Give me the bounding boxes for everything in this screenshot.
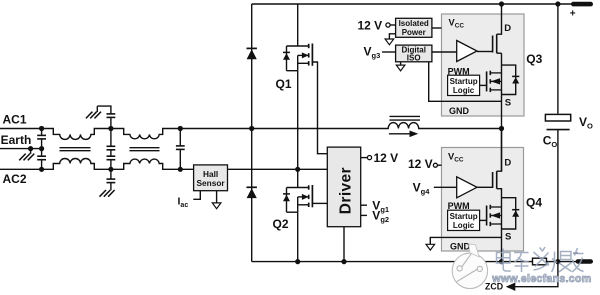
svg-text:Logic: Logic: [453, 221, 475, 230]
node junction dot AC1/input-caps: [39, 126, 44, 131]
Startup Logic box (Q3): [448, 75, 480, 95]
wire driver Vg1 stub: [361, 204, 367, 206]
transistor Q1: [283, 44, 312, 71]
wire Vg4 input to Q4 gate buffer: [434, 186, 457, 188]
wire Q1 source to AC2 node: [297, 71, 299, 170]
wire Q2 drain stub: [297, 169, 299, 187]
diode Q3 body diode: [512, 76, 519, 83]
ground signal gnd at Hall sensor: [212, 203, 221, 209]
capacitor output X-cap: [176, 146, 185, 150]
svg-text:12 V: 12 V: [358, 18, 383, 32]
svg-text:PWM: PWM: [448, 67, 470, 77]
wire Q3 source jog: [497, 52, 502, 54]
svg-text:S: S: [505, 231, 511, 242]
svg-text:D: D: [504, 158, 511, 169]
op-amp U3 power stage panel (Q3 block background): [442, 14, 525, 116]
svg-text:PWM: PWM: [448, 201, 470, 211]
transistor Q4 GaN FET gate and channel bars: [493, 171, 497, 189]
svg-text:Sensor: Sensor: [197, 178, 226, 188]
svg-text:AC2: AC2: [3, 172, 27, 186]
wire Q2 source to bottom rail: [297, 212, 299, 261]
node junction dot Co-ZCD/bottom rail: [555, 259, 560, 264]
svg-text:S: S: [505, 97, 511, 108]
wire driver 12V stub: [361, 157, 368, 159]
wire Digital ISO output to Q3 gate buffer: [432, 51, 457, 53]
node junction dot AC1/output X-cap: [178, 126, 183, 131]
wire boost inductor core bars: [390, 115, 421, 117]
diode D2 (bottom of slow leg): [247, 187, 257, 198]
wire Earth input line: [0, 148, 42, 150]
wire driver bottom pin to bottom rail: [343, 227, 345, 262]
boost inductor current direction arrow: [410, 131, 419, 138]
wire CM choke 1 core: [60, 147, 91, 149]
svg-text:Q1: Q1: [276, 77, 292, 91]
wire output capacitor Co branch: [557, 4, 559, 262]
wire Q4 body diode branch: [502, 198, 516, 229]
capacitor mid filter X-cap lower: [107, 156, 116, 160]
ground signal gnd at Isolated Power: [385, 39, 394, 45]
capacitor Y-cap to earth (top mid filter): [107, 114, 116, 118]
wire Digital ISO ground stub: [400, 62, 402, 65]
wire mid filter X-caps between AC1 and AC2: [110, 129, 112, 170]
node junction dot AC2/Q1-Q2 midpoint: [295, 167, 300, 172]
svg-text:Logic: Logic: [453, 86, 475, 95]
capacitor Y-cap to earth (bottom mid filter): [107, 179, 116, 183]
wire AC1 line with EMI choke sections and boost inductor: [0, 123, 502, 140]
ground earth symbol at Earth input: [30, 149, 32, 154]
svg-text:Q2: Q2: [273, 217, 289, 231]
wire Q4 GND pin to ground: [430, 237, 501, 244]
svg-text:GND: GND: [450, 242, 471, 252]
ground earth symbol above filter: [86, 112, 101, 119]
Driver box U2: [327, 147, 360, 227]
12V terminal circle at Isolated Power: [386, 23, 390, 27]
node junction dot AC2/output X-cap: [178, 167, 183, 172]
watermark Chinese characters (faked hollow glyphs): [497, 247, 584, 272]
12V terminal circle at Q4: [433, 163, 437, 167]
wire driver Vg2 stub: [361, 214, 367, 216]
node junction dot Co/top rail: [555, 1, 560, 6]
svg-text:Startup: Startup: [450, 212, 478, 221]
wire CM choke 2 core: [130, 147, 160, 149]
ZCD arrow head: [506, 283, 516, 291]
svg-text:www.elecfans.com: www.elecfans.com: [491, 273, 591, 285]
op-amp U4 power stage panel (Q4 block background): [442, 148, 524, 252]
wire Hall sensor ground pin: [216, 191, 218, 203]
output negative terminal bar: [576, 259, 594, 263]
wire bottom DC rail: [252, 261, 576, 263]
wire AC2 line with EMI choke sections (to Hall sensor): [0, 159, 194, 170]
wire Q4 startup logic gate wire: [480, 219, 487, 221]
wire X-cap string at filter input (AC1 to Earth to AC2): [41, 129, 43, 170]
node junction dot switch node/boost inductor: [499, 126, 504, 131]
wire AC2 from Hall sensor to Q1/Q2 midpoint and Driver: [228, 168, 328, 170]
node junction dot AC1/mid-caps: [108, 126, 113, 131]
diode Q4 body diode: [512, 210, 519, 217]
wire Q4 drain jog: [497, 129, 502, 172]
svg-text:Driver: Driver: [337, 167, 354, 214]
diode D1 (top of slow leg): [247, 48, 257, 59]
ground signal gnd at Q4 GND pin: [426, 244, 435, 250]
node junction dot AC1/diode-leg midpoint: [249, 126, 254, 131]
svg-text:+: +: [570, 8, 576, 19]
transistor Q3 GaN FET gate and channel bars: [493, 34, 497, 53]
transistor Q3 startup FET: [487, 71, 502, 92]
wire ZCD sense line: [515, 262, 558, 287]
wire Digital ISO reference to Q3 GND pin: [429, 62, 502, 102]
svg-text:AC1: AC1: [3, 113, 27, 127]
svg-text:D: D: [504, 23, 511, 34]
svg-text:Q4: Q4: [526, 195, 542, 209]
resistor shunt on bottom rail: [533, 258, 547, 265]
wire Q3 body diode branch: [502, 65, 516, 94]
wire Isolated Power output to Q3 Vcc pin: [432, 27, 442, 29]
wire diode-leg vertical: [251, 4, 253, 262]
node junction dot AC2/mid-caps: [108, 167, 113, 172]
watermark logo circle: [452, 244, 487, 289]
Digital ISO box: [396, 45, 432, 62]
svg-text:GND: GND: [449, 106, 470, 116]
capacitor input X-cap Earth-AC2: [37, 156, 46, 160]
node junction dot Q4 source/bottom rail: [499, 259, 504, 264]
Hall Sensor box: [194, 165, 228, 191]
wire Isolated Power ground hook: [389, 34, 395, 39]
op-amp gate buffer U3: [457, 41, 477, 62]
wire Q3 gate buffer output: [477, 51, 493, 53]
Startup Logic box (Q4): [448, 210, 480, 230]
wire Q2 gate to driver: [312, 202, 327, 204]
node junction dot Earth/ground tap: [28, 146, 33, 151]
ground earth symbol below filter: [100, 190, 115, 197]
node junction dot Q2 source/bottom rail: [295, 259, 300, 264]
transistor Q2: [283, 185, 312, 212]
wire Vg3 input to Digital ISO: [382, 51, 396, 53]
output positive terminal bar: [571, 2, 593, 7]
wire Q3 drain from top rail: [497, 4, 502, 34]
node junction dot driver gnd/bottom rail: [341, 259, 346, 264]
capacitor Co bottom plate: [547, 129, 570, 131]
wire Y-cap below AC2 to earth: [110, 169, 112, 190]
svg-text:12 V: 12 V: [374, 151, 399, 165]
wire 12V input to Isolated Power: [390, 24, 396, 26]
svg-text:Power: Power: [402, 28, 426, 37]
svg-text:ISO: ISO: [407, 54, 421, 63]
svg-text:12 V: 12 V: [408, 157, 433, 171]
svg-text:Q3: Q3: [526, 52, 542, 66]
node junction dot Q3 drain/top rail: [499, 1, 504, 6]
wire Q4 gate buffer output: [477, 186, 493, 188]
svg-text:Isolated: Isolated: [399, 19, 429, 28]
wire Q3 startup logic gate wire: [480, 84, 487, 86]
wire Q4 Vcc 12V pin: [437, 164, 441, 166]
capacitor mid filter X-cap upper: [107, 146, 116, 150]
node junction dot Earth/input-caps: [39, 146, 44, 151]
Isolated Power box: [396, 18, 432, 37]
wire switch node: Q3 source to Q4 drain: [501, 53, 503, 171]
wire top DC rail: [252, 3, 572, 5]
capacitor Co top plate (rectangle): [545, 114, 570, 121]
wire Q4 source jog and source to bottom rail: [497, 189, 502, 262]
wire Y-cap branch to earth above filter: [97, 106, 111, 128]
wire X-cap at filter output: [179, 129, 181, 170]
wire Q1 drain stub: [297, 4, 299, 46]
svg-text:Startup: Startup: [450, 77, 478, 86]
capacitor input X-cap AC1-Earth: [37, 135, 46, 139]
wire boost inductor current arrow line: [389, 133, 411, 135]
node junction dot AC2/input-caps: [39, 167, 44, 172]
op-amp gate buffer U4: [457, 177, 477, 198]
wire Q1 gate to driver: [312, 62, 327, 154]
12V terminal circle at Driver: [367, 156, 371, 160]
svg-text:Earth: Earth: [1, 133, 32, 147]
wire Hall sensor Iac output pin: [193, 191, 200, 200]
ground signal gnd at Digital ISO: [396, 65, 405, 71]
transistor Q4 startup FET: [487, 205, 502, 226]
